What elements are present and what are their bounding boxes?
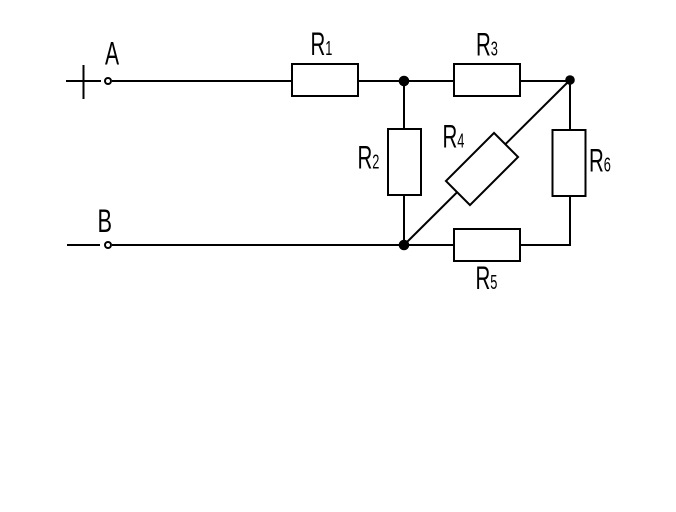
wire node 1 to R3 bbox=[404, 80, 454, 82]
junction node 2 bbox=[565, 75, 575, 85]
terminal A circle bbox=[105, 78, 111, 84]
junction node 1 bbox=[399, 76, 410, 87]
resistor R6 bbox=[553, 130, 586, 196]
resistor R4 bbox=[446, 133, 518, 205]
wire R5 to bottom right corner bbox=[520, 244, 571, 246]
wire R1 to node 1 bbox=[357, 80, 404, 82]
node A label bbox=[105, 35, 120, 72]
wire A to R1 bbox=[112, 80, 292, 82]
resistor R2 bbox=[388, 129, 421, 195]
wire R6 to bottom right corner bbox=[569, 195, 571, 246]
wire B to node 3 bbox=[112, 244, 404, 246]
svg-text:A: A bbox=[105, 35, 120, 72]
wire node 1 to R2 bbox=[403, 81, 405, 130]
terminal B circle bbox=[105, 242, 111, 248]
wire node 3 to R5 bbox=[404, 244, 454, 246]
terminal A cross bbox=[66, 65, 101, 99]
wire node 2 to R6 bbox=[569, 80, 571, 131]
terminal B lead bbox=[67, 244, 100, 246]
svg-text:B: B bbox=[98, 203, 113, 239]
resistor R3 bbox=[454, 64, 520, 96]
junction node 3 bbox=[399, 240, 410, 251]
node B label bbox=[98, 203, 113, 239]
resistor R5 bbox=[454, 229, 520, 261]
resistor R1 bbox=[292, 64, 358, 96]
wire R3 to node 2 bbox=[520, 80, 570, 82]
wire R2 to node 3 bbox=[403, 194, 405, 245]
diagonal wire node 3 to node 2 bbox=[404, 80, 570, 245]
